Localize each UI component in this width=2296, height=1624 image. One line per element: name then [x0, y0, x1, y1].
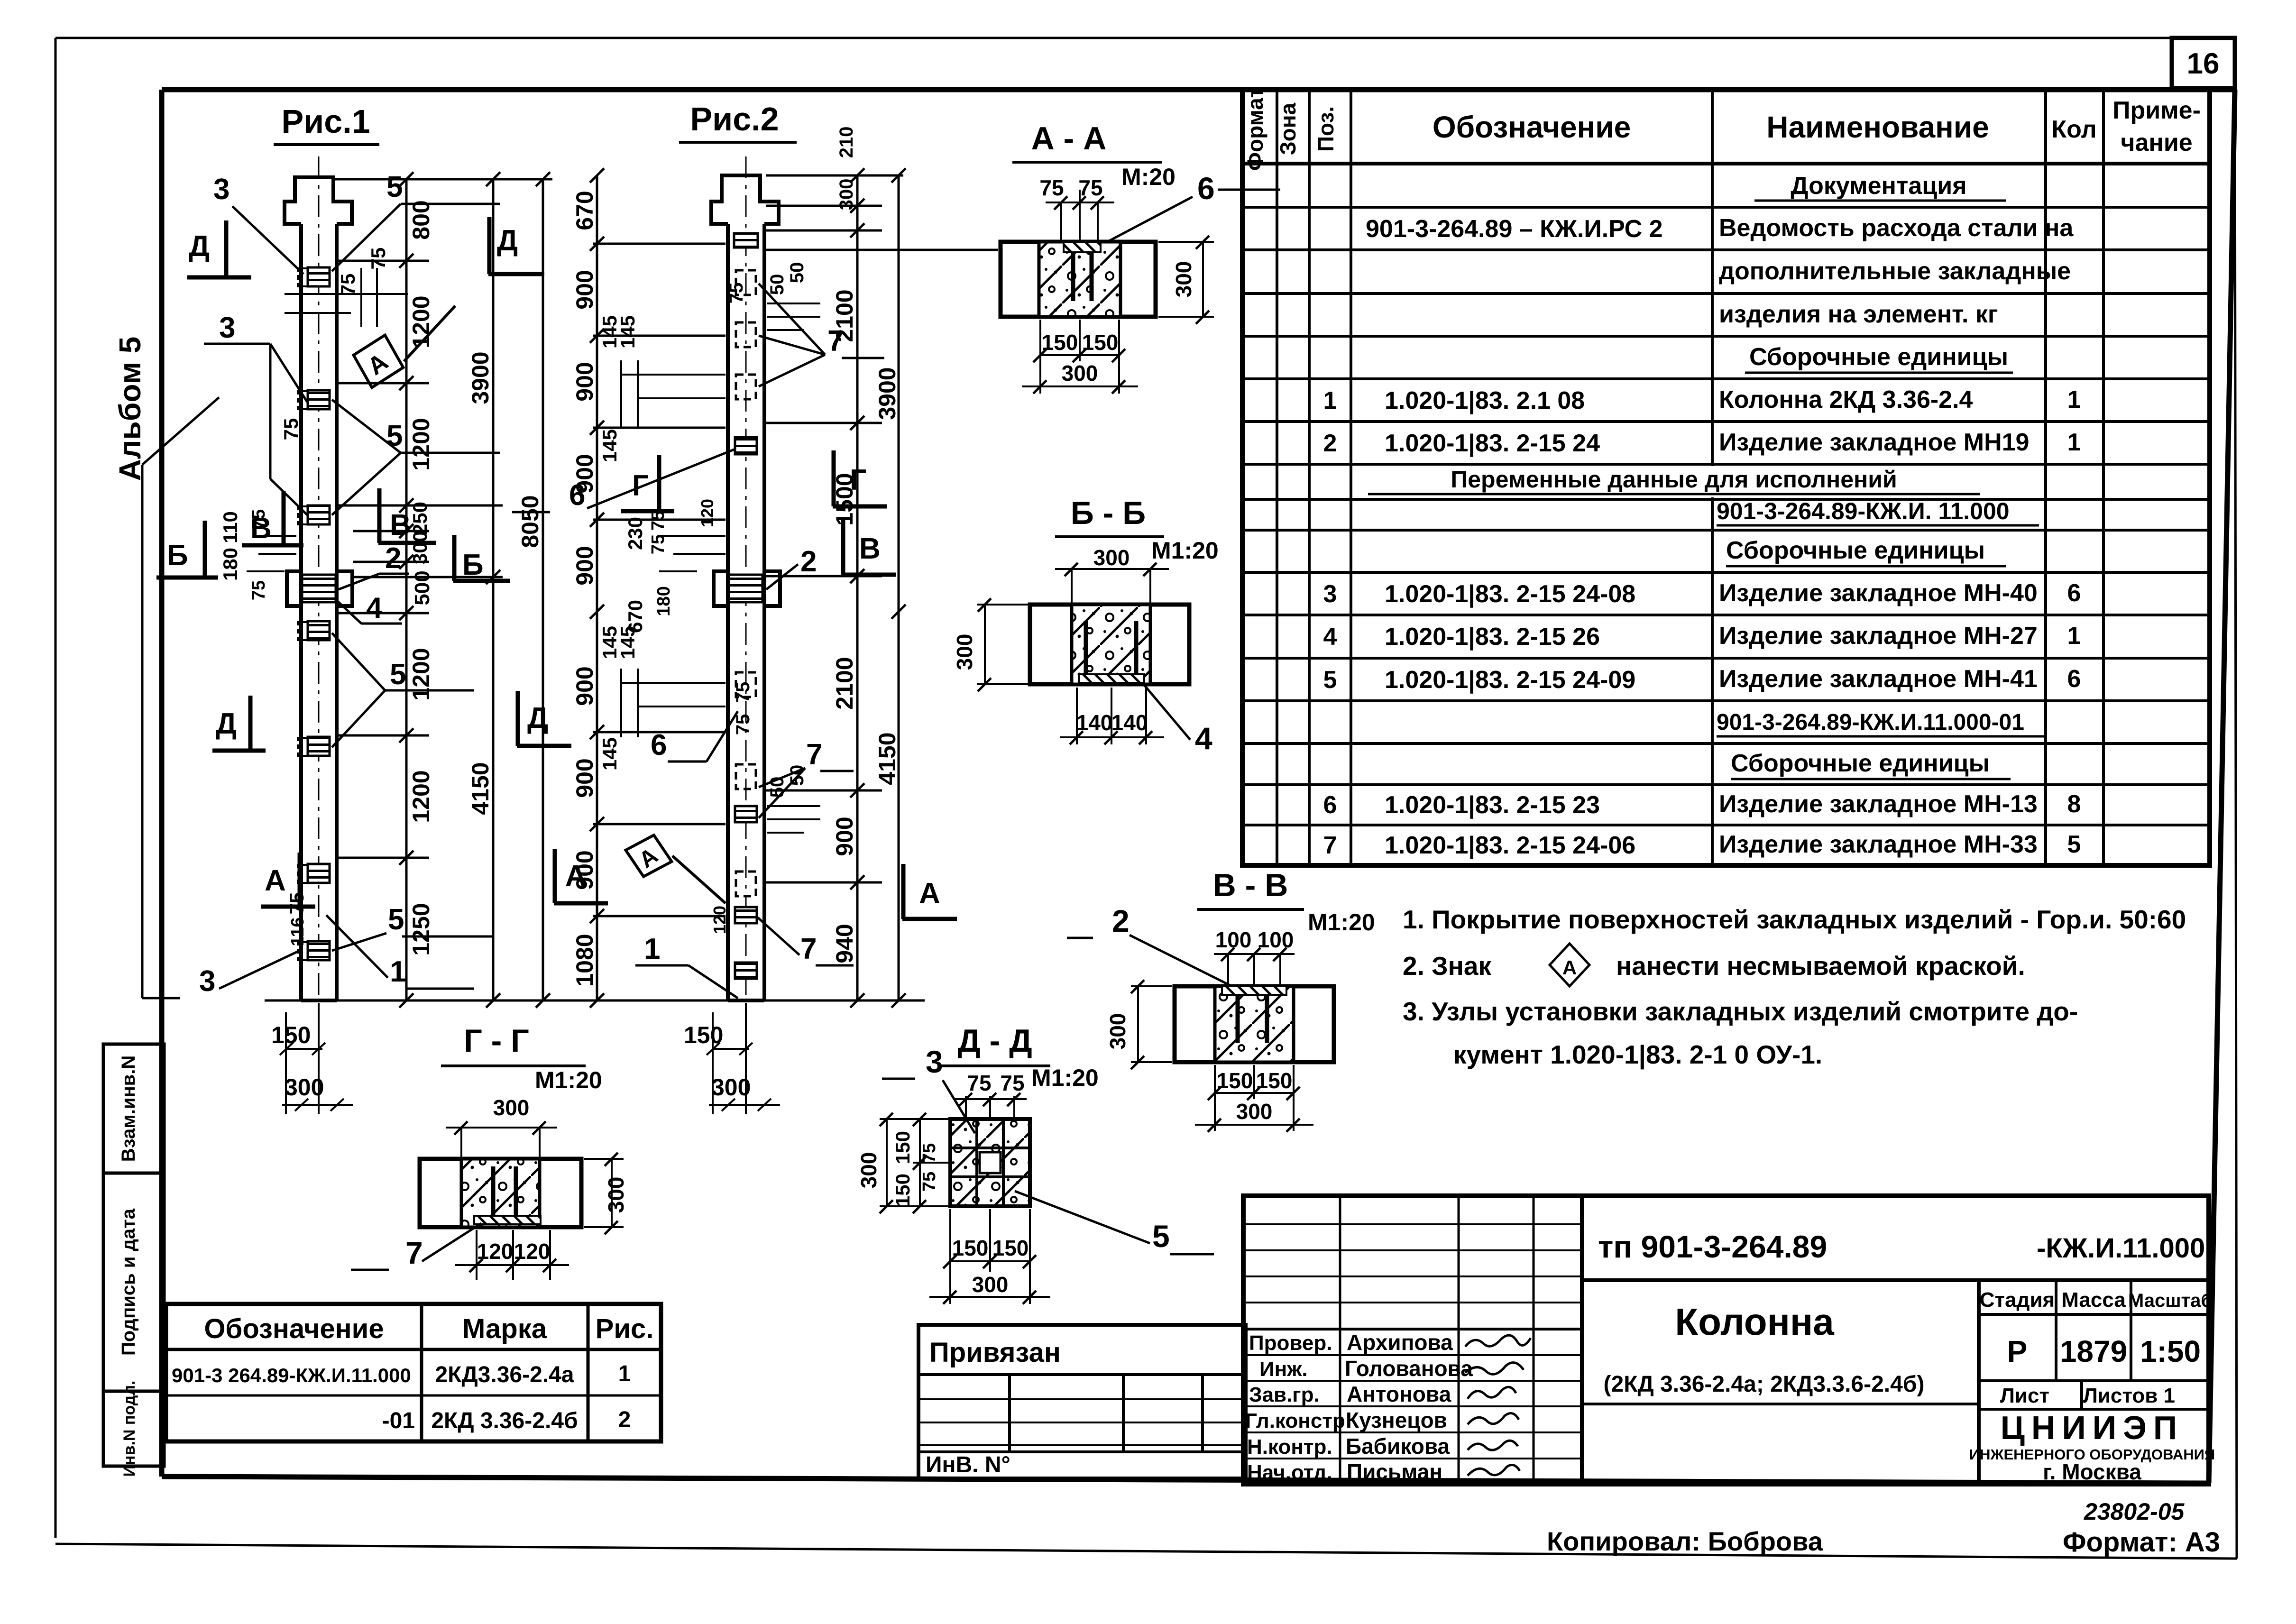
Рис.2 dashed hidden plates: [736, 270, 756, 896]
svg-text:1879: 1879: [2060, 1334, 2127, 1368]
svg-text:1.020-1|83. 2-15 24-06: 1.020-1|83. 2-15 24-06: [1385, 832, 1635, 859]
title block names: [1345, 1330, 1473, 1484]
svg-text:2КД3.36-2.4а: 2КД3.36-2.4а: [435, 1362, 574, 1387]
svg-text:900: 900: [571, 362, 598, 401]
svg-text:250: 250: [409, 502, 431, 535]
Рис.2 console small dims 230/75/75/670/180: [659, 536, 726, 571]
Рис.1 callout 3: [213, 173, 303, 274]
svg-text:1: 1: [644, 933, 660, 965]
svg-text:Инв.N подл.: Инв.N подл.: [120, 1381, 138, 1477]
svg-text:Голованова: Голованова: [1345, 1356, 1473, 1381]
svg-text:140: 140: [1076, 710, 1113, 735]
svg-text:300: 300: [856, 1152, 881, 1189]
svg-text:16: 16: [2187, 47, 2220, 80]
svg-text:Б: Б: [167, 539, 188, 572]
Рис.1 bottom plate 75/116 labels: [285, 892, 308, 946]
svg-text:А - А: А - А: [1031, 120, 1107, 156]
svg-text:изделия на элемент. кг: изделия на элемент. кг: [1719, 301, 1998, 328]
svg-text:А: А: [1562, 956, 1577, 979]
svg-text:120: 120: [514, 1239, 551, 1264]
svg-text:100: 100: [1258, 927, 1294, 952]
svg-text:900: 900: [831, 817, 858, 856]
Рис.2 mid console: [714, 571, 780, 606]
svg-text:7: 7: [800, 933, 817, 965]
svg-text:Н.контр.: Н.контр.: [1247, 1435, 1332, 1459]
svg-text:3. Узлы установки закладных: 3. Узлы установки закладных изделий смот…: [1403, 997, 2078, 1026]
svg-text:Формат: Формат: [1243, 87, 1267, 171]
svg-text:50: 50: [787, 262, 808, 284]
svg-text:180: 180: [654, 586, 674, 616]
svg-text:210: 210: [836, 127, 857, 158]
svg-text:3: 3: [1323, 580, 1337, 608]
svg-text:900: 900: [571, 666, 598, 706]
Рис.2 inner 75 labels: [698, 283, 753, 934]
svg-text:300: 300: [493, 1095, 530, 1120]
section В-В callout 2: [1067, 903, 1237, 989]
svg-text:1: 1: [2067, 429, 2081, 456]
table header labels: [1243, 87, 2201, 171]
svg-text:Формат: А3: Формат: А3: [2063, 1527, 2220, 1558]
Рис.2 centerline: [745, 156, 747, 1000]
знак А diamond 1: [347, 306, 455, 394]
svg-text:А: А: [919, 877, 940, 910]
Рис.1 small dims 75/75 top: [285, 268, 408, 327]
svg-text:5: 5: [390, 658, 406, 691]
svg-text:Колонна: Колонна: [1675, 1301, 1834, 1343]
svg-text:Подпись и дата: Подпись и дата: [118, 1208, 139, 1356]
svg-text:7: 7: [405, 1235, 423, 1270]
svg-text:75: 75: [1039, 175, 1064, 200]
svg-text:901-3-264.89-КЖ.И.11.000-01: 901-3-264.89-КЖ.И.11.000-01: [1717, 710, 2024, 735]
svg-text:5: 5: [388, 903, 404, 936]
svg-text:1: 1: [2067, 622, 2081, 650]
svg-text:Г: Г: [850, 464, 866, 496]
svg-text:Стадия: Стадия: [1980, 1288, 2055, 1312]
svg-text:670: 670: [624, 600, 646, 633]
svg-text:В: В: [250, 512, 272, 545]
svg-text:2: 2: [1323, 430, 1337, 457]
section Г-Г callout 7: [351, 1223, 481, 1270]
Рис.2 small dims 50/50 upper: [767, 303, 820, 330]
svg-text:6: 6: [1323, 791, 1337, 819]
svg-text:Изделие закладное МН-27: Изделие закладное МН-27: [1719, 622, 2038, 650]
section cut marks: [167, 224, 940, 910]
strip cell labels: [118, 1055, 139, 1477]
привязан table: [918, 1325, 1246, 1478]
svg-text:75: 75: [967, 1071, 991, 1095]
svg-text:3: 3: [199, 965, 215, 998]
svg-text:-01: -01: [382, 1408, 415, 1433]
svg-text:Рис.2: Рис.2: [690, 101, 779, 138]
svg-text:тп 901-3-264.89: тп 901-3-264.89: [1598, 1229, 1827, 1264]
Рис.2 chain tick marks: [590, 168, 906, 1008]
svg-text:г. Москва: г. Москва: [2043, 1459, 2141, 1484]
svg-text:900: 900: [571, 546, 598, 585]
svg-text:5: 5: [1323, 666, 1337, 694]
svg-text:Антонова: Антонова: [1347, 1382, 1451, 1406]
svg-text:Взам.инв.N: Взам.инв.N: [118, 1055, 139, 1162]
svg-text:5: 5: [2067, 831, 2081, 858]
svg-text:2: 2: [618, 1407, 631, 1432]
svg-text:Б: Б: [462, 549, 484, 581]
svg-text:5: 5: [1152, 1219, 1170, 1254]
Рис.2 column stem: [728, 224, 764, 1000]
Рис.1 mid console: [287, 571, 352, 606]
svg-text:Листов 1: Листов 1: [2083, 1384, 2175, 1407]
svg-text:В: В: [390, 509, 411, 541]
section А-А body: [1001, 242, 1156, 317]
notes text: [1403, 905, 2186, 1070]
svg-text:300: 300: [952, 634, 977, 670]
Рис.1 bottom dims 150/300: [280, 1003, 353, 1114]
svg-text:230: 230: [624, 517, 646, 550]
Рис.2 callout 1: [635, 933, 738, 998]
svg-text:Г: Г: [632, 469, 649, 502]
svg-text:М1:20: М1:20: [1151, 537, 1219, 564]
Рис.2 solid plates: [734, 233, 758, 979]
svg-text:150: 150: [1082, 330, 1119, 355]
svg-text:ИнВ. N°: ИнВ. N°: [926, 1452, 1010, 1477]
svg-text:1200: 1200: [408, 648, 434, 700]
svg-text:75: 75: [285, 892, 308, 915]
Рис.2 small dims 145/145 upper: [621, 360, 726, 429]
svg-text:Лист: Лист: [2000, 1384, 2049, 1407]
Рис.1 column stem: [301, 224, 337, 1000]
Рис.2 small dims 145/145 lower: [621, 669, 726, 737]
svg-text:Обозначение: Обозначение: [1433, 110, 1631, 144]
svg-text:Д: Д: [189, 230, 210, 263]
svg-text:300: 300: [1105, 1013, 1130, 1050]
svg-text:1: 1: [2067, 386, 2081, 413]
svg-text:150: 150: [952, 1236, 989, 1260]
section Г-Г title: [441, 1023, 602, 1120]
Альбом 5 vertical caption: [113, 337, 147, 481]
Рис.1 caption: [274, 103, 379, 145]
Рис.2 dimension chain lines: [593, 175, 998, 1000]
svg-text:А: А: [265, 864, 286, 897]
svg-text:75: 75: [648, 511, 668, 531]
svg-text:1.020-1|83. 2-15 24: 1.020-1|83. 2-15 24: [1385, 430, 1600, 457]
svg-text:300: 300: [1093, 545, 1130, 570]
svg-text:чание: чание: [2121, 129, 2192, 156]
Рис.1 console small dims: [247, 536, 296, 571]
section Б-Б dims: [977, 569, 1169, 744]
section В-В body: [1175, 986, 1334, 1062]
svg-text:75: 75: [367, 248, 389, 270]
svg-text:75: 75: [1000, 1071, 1024, 1095]
svg-text:2. Знак: 2. Знак: [1403, 951, 1491, 981]
svg-text:кумент 1.020-1|83. 2-1 0 ОУ: кумент 1.020-1|83. 2-1 0 ОУ-1.: [1453, 1040, 1822, 1070]
svg-text:Кол: Кол: [2051, 116, 2096, 143]
svg-text:901-3 264.89-КЖ.И.11.000: 901-3 264.89-КЖ.И.11.000: [172, 1364, 411, 1386]
svg-text:Рис.: Рис.: [596, 1313, 654, 1344]
svg-text:75: 75: [1078, 175, 1102, 200]
svg-text:1.020-1|83. 2-15 24-08: 1.020-1|83. 2-15 24-08: [1385, 580, 1635, 608]
svg-text:3: 3: [219, 312, 235, 344]
svg-text:4150: 4150: [467, 762, 494, 815]
svg-text:Д: Д: [216, 707, 237, 740]
svg-text:8050: 8050: [517, 495, 543, 548]
svg-text:2: 2: [800, 545, 817, 578]
Рис.2 callout 7 top: [759, 284, 884, 386]
section А-А title: [1012, 120, 1280, 246]
svg-text:Архипова: Архипова: [1347, 1330, 1453, 1355]
Рис.1 callout 3 bottom: [142, 397, 303, 998]
svg-text:180: 180: [219, 548, 241, 581]
svg-text:3900: 3900: [874, 367, 900, 420]
table rows content: [1323, 172, 2081, 859]
svg-text:дополнительные закладные: дополнительные закладные: [1719, 257, 2071, 285]
знак А diamond 2: [621, 829, 726, 903]
svg-text:1200: 1200: [408, 418, 434, 470]
svg-text:150: 150: [1042, 330, 1078, 355]
svg-text:75: 75: [919, 1172, 939, 1192]
Рис.2 dimension labels right: [831, 127, 900, 963]
svg-text:Изделие закладное МН-33: Изделие закладное МН-33: [1719, 831, 2038, 858]
svg-text:3900: 3900: [467, 351, 494, 404]
svg-text:В - В: В - В: [1213, 867, 1288, 903]
Рис.1 chain tick marks: [399, 172, 550, 1008]
section Д-Д title: [941, 1023, 1099, 1095]
svg-text:Бабикова: Бабикова: [1346, 1434, 1450, 1459]
svg-text:300: 300: [1171, 261, 1196, 298]
svg-text:300: 300: [836, 179, 857, 211]
specification table grid: [1242, 90, 2210, 865]
svg-text:145: 145: [616, 315, 639, 349]
svg-text:1200: 1200: [408, 770, 434, 823]
section Д-Д dims: [880, 1096, 1050, 1304]
Рис.1 embedded plates: [308, 267, 330, 960]
svg-text:150: 150: [1256, 1068, 1293, 1093]
Рис.2 dimension labels left: [571, 191, 598, 986]
svg-text:150: 150: [891, 1174, 914, 1207]
Рис.1 callout 4: [338, 592, 402, 624]
section Б-Б body: [1030, 605, 1189, 684]
svg-text:Изделие закладное МН-13: Изделие закладное МН-13: [1719, 790, 2038, 818]
svg-text:1: 1: [1323, 387, 1337, 414]
svg-text:1080: 1080: [571, 934, 598, 986]
left margin stamp strip: [103, 1044, 164, 1466]
svg-text:-КЖ.И.11.000: -КЖ.И.11.000: [2037, 1233, 2205, 1264]
svg-text:Приме-: Приме-: [2112, 97, 2201, 124]
svg-text:75: 75: [733, 714, 753, 735]
Рис.1 callout 3 second: [204, 312, 307, 515]
svg-text:(2КД 3.36-2.4а; 2КД3.3.6-2.4б): (2КД 3.36-2.4а; 2КД3.3.6-2.4б): [1604, 1372, 1925, 1397]
svg-text:Нач.отд.: Нач.отд.: [1247, 1461, 1332, 1484]
Рис.2 bottom dims 150/300: [707, 1003, 780, 1114]
svg-text:М1:20: М1:20: [1308, 909, 1375, 936]
section А-А dims: [1022, 190, 1214, 394]
svg-text:Документация: Документация: [1791, 172, 1966, 200]
svg-text:Масса: Масса: [2061, 1288, 2126, 1312]
svg-text:1250: 1250: [408, 903, 434, 955]
svg-text:1. Покрытие поверхностей зак: 1. Покрытие поверхностей закладных издел…: [1403, 905, 2186, 934]
svg-text:Д - Д: Д - Д: [957, 1023, 1032, 1059]
svg-text:Зав.гр.: Зав.гр.: [1249, 1383, 1320, 1406]
svg-text:75: 75: [280, 418, 302, 440]
Рис.2 callout 6 top: [512, 450, 734, 512]
Рис.2 callout 7 mid: [759, 738, 854, 818]
svg-text:1.020-1|83. 2-15 26: 1.020-1|83. 2-15 26: [1385, 623, 1600, 651]
svg-text:150: 150: [271, 1022, 311, 1048]
svg-text:Кузнецов: Кузнецов: [1346, 1408, 1447, 1432]
section Б-Б callout 4: [1142, 683, 1212, 756]
svg-text:75: 75: [249, 580, 269, 600]
Рис.2 callout 2: [766, 545, 817, 589]
svg-text:М:20: М:20: [1121, 164, 1176, 190]
svg-text:Гл.констр: Гл.констр: [1245, 1409, 1345, 1432]
Рис.1 centerline: [318, 156, 320, 1000]
svg-text:901-3-264.89 – КЖ.И.РС 2: 901-3-264.89 – КЖ.И.РС 2: [1366, 215, 1663, 243]
svg-text:4: 4: [1195, 721, 1212, 756]
Рис.1 callout 5 top: [332, 171, 500, 271]
svg-text:670: 670: [571, 191, 598, 230]
svg-text:150: 150: [992, 1236, 1029, 1260]
svg-text:1.020-1|83. 2.1 08: 1.020-1|83. 2.1 08: [1385, 387, 1585, 414]
stage-mass-scale grid: [1980, 1288, 2213, 1407]
Рис.1 column head: [285, 177, 352, 224]
svg-text:300: 300: [1062, 361, 1098, 385]
svg-text:Провер.: Провер.: [1249, 1331, 1332, 1355]
svg-text:2100: 2100: [831, 657, 858, 709]
svg-text:900: 900: [571, 270, 598, 309]
svg-text:Масштаб: Масштаб: [2128, 1290, 2213, 1311]
svg-text:Копировал: Боброва: Копировал: Боброва: [1547, 1526, 1823, 1556]
Рис.1 callout 5 lower: [332, 633, 474, 747]
section Д-Д body: [950, 1119, 1030, 1206]
svg-text:901-3-264.89-КЖ.И. 11.000: 901-3-264.89-КЖ.И. 11.000: [1717, 498, 2010, 524]
svg-text:6: 6: [1197, 171, 1215, 206]
title block frame: [1243, 1196, 2209, 1484]
Рис.1 plate anchor staples: [298, 268, 307, 960]
svg-text:6: 6: [2067, 665, 2081, 693]
Рис.2 callout 6 lower: [651, 711, 738, 762]
svg-text:Инж.: Инж.: [1259, 1358, 1308, 1381]
section Д-Д callout 5: [1015, 1191, 1214, 1254]
svg-text:7: 7: [827, 325, 844, 358]
svg-text:М1:20: М1:20: [535, 1067, 602, 1093]
svg-text:75: 75: [337, 274, 359, 296]
svg-text:300: 300: [409, 531, 431, 564]
svg-text:В: В: [859, 532, 881, 565]
svg-text:нанести несмываемой краской.: нанести несмываемой краской.: [1616, 951, 2025, 981]
section Д-Д callout 3: [882, 1044, 975, 1133]
svg-text:145: 145: [598, 429, 621, 462]
bottom annotations: [1547, 1498, 2220, 1558]
svg-text:Рис.1: Рис.1: [281, 103, 370, 140]
svg-text:300: 300: [1236, 1099, 1273, 1124]
svg-text:Письман: Письман: [1347, 1459, 1442, 1484]
section Б-Б title: [1055, 495, 1219, 570]
svg-text:1: 1: [390, 955, 406, 988]
svg-text:Альбом 5: Альбом 5: [113, 337, 147, 481]
svg-text:Сборочные единицы: Сборочные единицы: [1726, 537, 1985, 564]
svg-text:150: 150: [684, 1022, 723, 1048]
svg-text:3: 3: [926, 1044, 943, 1079]
section В-В dims: [1131, 954, 1313, 1131]
svg-text:7: 7: [806, 738, 822, 771]
svg-text:116: 116: [288, 917, 308, 946]
svg-text:300: 300: [711, 1074, 751, 1101]
svg-text:150: 150: [1217, 1068, 1253, 1093]
svg-text:8: 8: [2067, 790, 2081, 818]
svg-text:800: 800: [408, 200, 434, 239]
svg-text:50: 50: [767, 274, 788, 295]
svg-text:140: 140: [1111, 710, 1148, 735]
svg-text:Колонна 2КД 3.36-2.4: Колонна 2КД 3.36-2.4: [1719, 386, 1973, 413]
svg-text:300: 300: [285, 1074, 324, 1101]
Рис.1 console plate MH-27: [302, 575, 336, 602]
svg-text:2КД 3.36-2.4б: 2КД 3.36-2.4б: [431, 1408, 578, 1433]
svg-text:Р: Р: [2007, 1334, 2028, 1368]
svg-text:Изделие закладное МН-40: Изделие закладное МН-40: [1719, 579, 2038, 607]
svg-text:Марка: Марка: [462, 1313, 547, 1344]
svg-text:6: 6: [2067, 579, 2081, 607]
Рис.2 console plate: [729, 575, 762, 602]
svg-text:Изделие закладное МН19: Изделие закладное МН19: [1719, 429, 2029, 456]
svg-text:150: 150: [891, 1131, 914, 1164]
svg-text:120: 120: [710, 906, 729, 934]
svg-text:1:50: 1:50: [2140, 1334, 2201, 1368]
Рис.2 caption: [679, 101, 797, 142]
signatures squiggles: [1465, 1335, 1531, 1476]
section Г-Г body: [420, 1159, 581, 1227]
Рис.1 callout 5 bottom: [332, 903, 493, 951]
bottom-left reference table: [166, 1304, 661, 1441]
Рис.2 small dims 50/50 lower: [767, 806, 820, 833]
svg-text:Б - Б: Б - Б: [1071, 495, 1146, 531]
svg-text:Д: Д: [527, 702, 548, 734]
svg-text:Г - Г: Г - Г: [464, 1023, 529, 1059]
svg-text:1.020-1|83. 2-15 24-09: 1.020-1|83. 2-15 24-09: [1385, 666, 1635, 694]
svg-text:500: 500: [411, 570, 434, 605]
org name: [1969, 1409, 2215, 1484]
svg-text:Изделие закладное МН-41: Изделие закладное МН-41: [1719, 665, 2038, 693]
svg-text:23802-05: 23802-05: [2084, 1498, 2185, 1525]
svg-text:1200: 1200: [408, 295, 434, 348]
inner drawing frame: [162, 90, 2235, 1483]
svg-text:Сборочные единицы: Сборочные единицы: [1731, 750, 1990, 777]
svg-text:Ведомость расхода стали на: Ведомость расхода стали на: [1719, 214, 2074, 242]
section В-В title: [1197, 867, 1375, 952]
svg-text:Зона: Зона: [1276, 102, 1300, 155]
svg-text:Переменные данные для исполнен: Переменные данные для исполнений: [1451, 466, 1897, 493]
svg-text:А: А: [565, 860, 587, 892]
Рис.2 column head: [711, 175, 779, 224]
Рис.1 dimension labels: [408, 200, 543, 955]
svg-text:1.020-1|83. 2-15 23: 1.020-1|83. 2-15 23: [1385, 791, 1600, 819]
svg-text:120: 120: [698, 499, 717, 527]
svg-text:75: 75: [919, 1143, 939, 1163]
svg-text:Д: Д: [497, 224, 518, 257]
svg-text:Наименование: Наименование: [1766, 110, 1989, 144]
Рис.1 callout 1: [326, 915, 474, 989]
svg-text:300: 300: [604, 1177, 628, 1213]
svg-text:6: 6: [651, 729, 667, 762]
svg-text:Обозначение: Обозначение: [204, 1313, 384, 1344]
svg-text:6: 6: [569, 479, 585, 512]
svg-text:75: 75: [726, 283, 747, 304]
svg-text:М1:20: М1:20: [1031, 1064, 1099, 1091]
svg-text:2: 2: [1112, 903, 1130, 938]
svg-text:110: 110: [219, 511, 241, 543]
section Г-Г dims: [446, 1128, 624, 1280]
Рис.2 callout 7 bottom: [758, 918, 854, 965]
designation cell: [1598, 1229, 2205, 1397]
svg-text:1: 1: [618, 1361, 631, 1386]
svg-text:4: 4: [1323, 623, 1337, 651]
note 2 diamond знак А: [1550, 944, 1589, 986]
